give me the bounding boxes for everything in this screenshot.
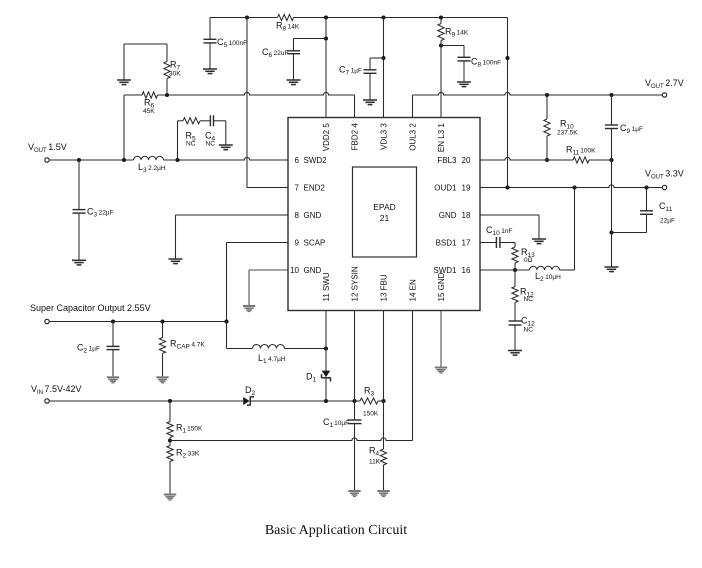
label R3	[364, 386, 375, 398]
resistor R6	[142, 92, 157, 98]
node top bus junction ENL3 column	[439, 15, 443, 19]
wire super capacitor bus	[49, 321, 226, 323]
label L2 10µH	[535, 271, 561, 283]
label C12 NC	[521, 316, 535, 334]
label C4 NC	[205, 131, 216, 148]
svg-text:GND: GND	[439, 211, 457, 220]
wire FBD2 drop to pin 4	[354, 95, 356, 118]
svg-text:9: 9	[295, 238, 300, 247]
node VOUT1.5 C3 junction	[77, 158, 81, 162]
svg-text:22µF: 22µF	[660, 218, 675, 225]
label C11	[659, 201, 673, 213]
inductor L1	[253, 345, 285, 349]
ground R7 arm	[117, 80, 131, 85]
label L3 2.2µH	[138, 162, 166, 174]
svg-text:OUD1: OUD1	[434, 183, 457, 192]
terminal VOUT 2.7V	[662, 93, 666, 97]
node RCAP junction	[160, 319, 164, 323]
svg-text:21: 21	[380, 213, 390, 223]
svg-text:NC: NC	[524, 296, 534, 303]
pin 8 GND	[295, 211, 322, 220]
ground pin15	[435, 367, 447, 374]
wire FBL3 row	[480, 157, 612, 160]
svg-text:11 SWU: 11 SWU	[322, 272, 331, 301]
svg-text:13 FBU: 13 FBU	[380, 274, 389, 301]
resistor R12	[512, 287, 518, 303]
pin 6 SWD2	[295, 156, 328, 165]
svg-text:GND: GND	[304, 266, 322, 275]
wire OUL3 column	[412, 95, 414, 118]
ground C4	[219, 145, 233, 150]
wire C2 stems	[112, 322, 114, 377]
capacitor C3	[73, 210, 86, 214]
node top bus junction VDD2 column	[324, 15, 328, 19]
svg-text:11K: 11K	[369, 459, 381, 466]
wire EN rise to pin14	[412, 311, 414, 441]
wire SWU pin11 column	[325, 311, 327, 371]
svg-text:VDD2 5: VDD2 5	[322, 123, 331, 152]
label R11 100K	[566, 145, 596, 157]
wire SYSIN pin12 column	[354, 311, 356, 402]
capacitor C5	[204, 39, 217, 43]
label Super Capacitor Output 2.55V	[30, 303, 151, 313]
label C5 100nF	[217, 37, 247, 49]
terminal VIN	[45, 399, 49, 403]
pin top EN L3 1	[437, 123, 446, 152]
node R10 bottom	[545, 158, 549, 162]
wire FBU pin13 column	[383, 311, 385, 450]
wire R12 top stub	[514, 270, 516, 287]
label VOUT 2.7V	[645, 78, 684, 90]
pin 7 END2	[295, 183, 326, 192]
wire R4 to ground	[383, 465, 385, 490]
wire C3 stems	[78, 160, 80, 260]
resistor R3	[360, 398, 378, 404]
pin 16 SWD1	[433, 266, 471, 275]
label C8 100nF	[471, 57, 501, 69]
wire C4 to ground	[214, 121, 226, 145]
wire C6 to ground	[293, 54, 295, 80]
ground C2	[107, 376, 119, 383]
wire C9 ground column	[611, 160, 613, 267]
svg-text:8: 8	[295, 211, 300, 220]
wire C12 to ground	[514, 325, 516, 351]
wire GND pin15 column	[440, 311, 442, 367]
svg-text:NC: NC	[186, 141, 196, 148]
svg-text:16: 16	[462, 266, 471, 275]
caption Basic Application Circuit	[265, 523, 407, 538]
wire L1 to SWU column	[285, 348, 327, 350]
inductor L2	[530, 266, 560, 270]
svg-text:OUL3 2: OUL3 2	[409, 123, 418, 151]
wire VIN row left	[49, 400, 243, 402]
wire C1 lower column	[354, 401, 356, 490]
label R6 45K	[143, 98, 155, 116]
wire R13 bottom	[514, 263, 516, 270]
wire ENL3 column to pin 1	[440, 41, 442, 118]
label C11 value	[660, 218, 675, 225]
node L1 SWU junction	[324, 346, 328, 350]
svg-text:SWD2: SWD2	[304, 156, 328, 165]
svg-text:BSD1: BSD1	[436, 238, 457, 247]
wire C6 branch	[294, 39, 327, 51]
svg-text:150K: 150K	[363, 411, 379, 418]
wire EN row	[170, 438, 413, 441]
label R4 11K	[369, 446, 381, 466]
svg-text:EPAD: EPAD	[373, 202, 396, 212]
label C1 10µF	[323, 417, 349, 429]
label C2 1µF	[77, 343, 100, 355]
ground pin8	[169, 259, 183, 264]
node L2 column top	[572, 185, 576, 189]
wire ENL3 column top	[440, 18, 442, 24]
label RCAP 4.7K	[170, 339, 205, 351]
ground C9 C11	[605, 267, 619, 272]
svg-text:14 EN: 14 EN	[409, 279, 418, 301]
wire VOUT 3.3V rail pin19	[480, 185, 662, 188]
wire SWD1 pin16	[480, 269, 530, 271]
label R10 237.5K	[557, 119, 578, 137]
label C7 1µF	[339, 65, 362, 77]
pin top VDD2 5	[322, 123, 331, 152]
svg-text:18: 18	[462, 211, 471, 220]
wire D1 to VIN	[325, 378, 327, 401]
terminal VOUT 3.3V	[662, 185, 666, 189]
wire R3 stub right	[378, 400, 384, 402]
svg-text:Basic Application Circuit: Basic Application Circuit	[265, 523, 407, 538]
wire top 3.3V bus	[210, 17, 508, 19]
ground C12	[508, 351, 522, 356]
label C3 22µF	[87, 207, 114, 219]
label R5 NC	[186, 131, 197, 148]
node top bus junction VDL3 column	[381, 15, 385, 19]
capacitor C9	[605, 125, 618, 129]
svg-text:15 GND: 15 GND	[437, 272, 446, 301]
svg-text:237.5K: 237.5K	[557, 130, 578, 137]
svg-text:20: 20	[462, 156, 471, 165]
wire C8 branch	[441, 46, 464, 58]
wire VDD2 column	[325, 18, 327, 118]
pin bottom 11 SWU	[322, 272, 331, 301]
pin top VDL3 3	[380, 123, 389, 150]
label R7 30K	[169, 60, 181, 78]
node C11 top	[644, 185, 648, 189]
wire VOUT 1.5V row	[49, 157, 288, 160]
svg-text:45K: 45K	[143, 108, 155, 115]
node R6 drop junction	[122, 158, 126, 162]
wire GND pin8	[176, 215, 289, 259]
wire R5 to C4	[200, 120, 210, 122]
pin bottom 13 FBU	[380, 274, 389, 301]
wire R10 stems	[546, 95, 548, 160]
wire x247 column END2 feed	[247, 18, 288, 188]
node x507 bottom on 3.3V rail	[505, 185, 509, 189]
wire C9 stems	[611, 95, 613, 160]
wire R5 branch drop	[178, 121, 184, 160]
svg-text:7: 7	[295, 183, 300, 192]
resistor R1	[167, 422, 173, 438]
pin top OUL3 2	[409, 123, 418, 151]
svg-text:10: 10	[290, 266, 299, 275]
pin bottom 14 EN	[409, 279, 418, 301]
svg-text:NC: NC	[206, 141, 216, 148]
resistor R11	[573, 157, 589, 163]
wire R3 stub left	[355, 400, 361, 402]
inductor L3	[134, 156, 164, 160]
resistor R5	[183, 118, 200, 124]
label R8 14K	[276, 21, 300, 33]
wire R2 to ground	[169, 462, 171, 494]
wire VOUT 2.7V rail	[413, 92, 663, 95]
resistor R13	[512, 247, 518, 263]
pin 19 OUD1	[434, 183, 471, 192]
svg-text:NC: NC	[524, 327, 534, 334]
label C6 22uF	[262, 47, 288, 59]
capacitor C10	[496, 237, 500, 248]
pin top FBD2 4	[351, 123, 360, 151]
svg-text:0Ω: 0Ω	[524, 257, 533, 264]
ground C3	[72, 260, 86, 265]
diode D2	[243, 397, 254, 406]
capacitor C4	[210, 115, 213, 126]
wire C11 stems	[612, 188, 647, 233]
node SWD1 node	[513, 268, 517, 272]
svg-text:12 SYSIN: 12 SYSIN	[351, 266, 360, 301]
label L1 4.7µH	[258, 353, 286, 365]
wire top bus right drop to VOUT3.3 rail	[507, 18, 509, 188]
resistor R10	[544, 119, 550, 136]
label VOUT 3.3V	[645, 169, 684, 181]
label C9 1µF	[620, 123, 643, 135]
svg-text:GND: GND	[304, 211, 322, 220]
node C2 junction	[111, 319, 115, 323]
node R6 R7 junction	[165, 93, 169, 97]
wire R7 top to ground arm	[124, 44, 167, 80]
label R3 value	[363, 411, 379, 418]
svg-text:19: 19	[462, 183, 471, 192]
label R13 0Ω	[521, 247, 535, 264]
wire GND pin18	[480, 215, 539, 239]
wire L2 to 3.3V	[560, 188, 575, 271]
ground C1	[348, 490, 360, 497]
node C6 junction	[324, 36, 328, 40]
capacitor C8	[458, 57, 471, 61]
node SYSIN junction	[352, 399, 356, 403]
svg-text:FBD2 4: FBD2 4	[351, 123, 360, 151]
capacitor C11	[640, 211, 653, 215]
op-amp U1 IC body	[288, 118, 480, 311]
pin bottom 12 SYSIN	[351, 266, 360, 301]
diode D1	[321, 371, 330, 382]
svg-text:VDL3 3: VDL3 3	[380, 123, 389, 150]
label C10 1nF	[486, 225, 512, 237]
label VOUT 1.5V	[28, 142, 67, 154]
wire R6 left drop to VOUT1.5	[123, 95, 125, 160]
wire C7 branch	[370, 58, 384, 70]
pin 18 GND	[439, 211, 471, 220]
ground pin18	[532, 239, 546, 244]
resistor R9	[438, 24, 444, 41]
label D1	[306, 372, 317, 384]
ground C7	[363, 100, 377, 105]
pin bottom 15 GND	[437, 272, 446, 301]
capacitor C2	[107, 346, 120, 349]
ground R2	[164, 494, 176, 501]
node SCAP bus junction	[224, 319, 228, 323]
pin 17 BSD1	[436, 238, 471, 247]
wire VDL3 column	[383, 18, 385, 118]
wire R1 R2 junction	[169, 438, 171, 446]
resistor R2	[167, 446, 173, 462]
wire BSD1 pin17 to C10	[480, 242, 496, 244]
wire SCAP pin9	[227, 243, 289, 322]
label VIN 7.5V-42V	[31, 384, 82, 396]
node C9 top	[609, 93, 613, 97]
ground pin10	[243, 305, 255, 312]
node junction on x507 column	[505, 56, 509, 60]
node R11 right C9 bottom	[609, 158, 613, 162]
resistor R4	[380, 449, 386, 465]
label R9 14K	[445, 27, 469, 39]
ground C8	[457, 82, 471, 87]
wire GND pin10	[249, 270, 288, 305]
wire C7 to ground	[369, 73, 371, 100]
svg-text:FBL3: FBL3	[437, 156, 457, 165]
node top bus junction at C5 column x247	[245, 15, 249, 19]
node D1 anode junction	[324, 399, 328, 403]
wire R7 bottom	[166, 79, 168, 96]
node FBU junction	[381, 399, 385, 403]
resistor R8	[278, 14, 294, 20]
svg-text:EN L3 1: EN L3 1	[437, 123, 446, 152]
label R1 150K	[176, 423, 203, 435]
wire C8 to ground	[463, 61, 465, 82]
EPAD 21 inner pad	[353, 167, 417, 257]
svg-text:30K: 30K	[169, 71, 181, 78]
wire C5 top drop	[209, 18, 211, 40]
node C8 junction	[439, 43, 443, 47]
wire C10 to R13	[500, 243, 515, 248]
resistor RCAP	[159, 338, 165, 354]
wire FBD2 row	[124, 92, 355, 95]
svg-text:SCAP: SCAP	[304, 238, 326, 247]
capacitor C7	[364, 70, 377, 74]
label D2	[245, 385, 256, 397]
svg-text:6: 6	[295, 156, 300, 165]
capacitor C12	[509, 321, 522, 325]
node C11 bottom junction	[609, 230, 613, 234]
wire R12 to C12	[514, 303, 516, 322]
wire C5 to ground	[209, 43, 211, 69]
terminal Super Capacitor Output	[45, 319, 49, 323]
label R2 33K	[176, 448, 200, 460]
wire SCAP column to L1	[227, 322, 253, 349]
pin 10 GND	[290, 266, 321, 275]
node R10 top	[545, 93, 549, 97]
label R12 NC	[520, 287, 534, 304]
node EN node R1 R2	[168, 438, 172, 442]
ground C5	[203, 69, 217, 74]
wire VIN row mid	[250, 400, 354, 402]
capacitor C6	[287, 51, 300, 54]
node R1 top junction	[168, 399, 172, 403]
svg-text:END2: END2	[304, 183, 326, 192]
wire RCAP stems	[162, 322, 164, 377]
ground C6	[287, 80, 301, 85]
svg-text:17: 17	[462, 238, 471, 247]
terminal VOUT 1.5V	[45, 158, 49, 162]
pin 20 FBL3	[437, 156, 471, 165]
svg-text:Super Capacitor Output 2.55V: Super Capacitor Output 2.55V	[30, 303, 151, 313]
wire R1 stems	[169, 401, 171, 422]
pin 9 SCAP	[295, 238, 326, 247]
ground R4	[377, 490, 389, 497]
node R5 branch junction	[175, 158, 179, 162]
resistor R7	[164, 62, 170, 79]
ground RCAP	[156, 376, 168, 383]
capacitor C1	[348, 420, 362, 424]
node C7 junction	[381, 56, 385, 60]
